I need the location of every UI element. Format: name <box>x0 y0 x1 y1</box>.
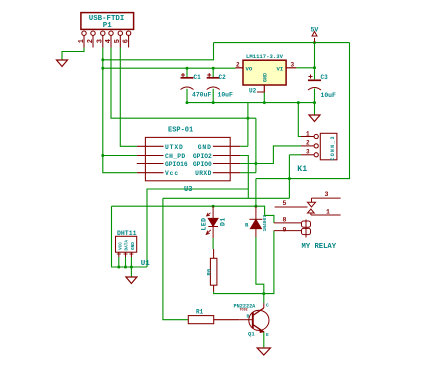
wire <box>125 257 127 267</box>
wire <box>62 48 84 61</box>
diode B1 1N4007 <box>249 206 262 237</box>
junction <box>186 67 189 70</box>
ground <box>57 60 68 67</box>
svg-text:5: 5 <box>283 200 287 207</box>
wire <box>214 231 274 294</box>
svg-text:VO: VO <box>246 66 253 73</box>
svg-text:LM1117-3.3V: LM1117-3.3V <box>246 53 284 60</box>
svg-text:P1: P1 <box>103 22 112 30</box>
wire <box>212 238 214 249</box>
ground <box>126 277 137 284</box>
svg-text:6: 6 <box>122 39 130 43</box>
wire <box>112 206 148 267</box>
wire <box>103 67 236 69</box>
svg-text:GND: GND <box>131 242 136 250</box>
svg-text:9: 9 <box>283 227 287 234</box>
svg-text:3: 3 <box>291 62 295 69</box>
wire <box>186 68 188 77</box>
regulator U2 LM1117-3.3V <box>236 60 297 92</box>
connector P1 USB-FTDI <box>81 13 134 48</box>
wire <box>263 332 265 347</box>
wire <box>212 89 214 103</box>
svg-text:C1: C1 <box>194 74 202 81</box>
svg-text:LED: LED <box>200 217 207 230</box>
junction <box>101 58 104 61</box>
junction <box>313 41 316 44</box>
svg-text:Vcc: Vcc <box>165 170 179 177</box>
svg-text:K1: K1 <box>297 165 307 174</box>
svg-text:1: 1 <box>326 209 330 216</box>
wire <box>103 155 137 157</box>
junction <box>212 101 215 104</box>
svg-text:3: 3 <box>97 39 105 43</box>
wire <box>187 102 315 104</box>
wire <box>118 257 120 267</box>
wire <box>289 154 301 156</box>
resistor R6 <box>210 249 217 292</box>
wire <box>255 179 257 207</box>
wire <box>288 155 290 199</box>
connector K1 <box>301 133 337 160</box>
svg-text:4: 4 <box>105 39 113 43</box>
svg-text:TO92: TO92 <box>240 309 248 313</box>
svg-text:8: 8 <box>283 217 287 224</box>
junction <box>212 67 215 70</box>
svg-text:2: 2 <box>236 62 240 69</box>
svg-text:GPIO16: GPIO16 <box>165 161 188 168</box>
junction <box>263 101 266 104</box>
junction <box>254 162 257 165</box>
junction <box>254 205 257 208</box>
wire <box>296 67 314 69</box>
junction <box>288 177 291 180</box>
junction <box>246 117 249 120</box>
svg-text:5V: 5V <box>311 27 319 34</box>
svg-text:DHT11: DHT11 <box>117 230 137 237</box>
svg-text:10uF: 10uF <box>218 92 234 99</box>
wire <box>212 68 214 77</box>
wire <box>314 89 316 115</box>
svg-text:GPIO2: GPIO2 <box>193 153 212 160</box>
wire <box>214 42 350 44</box>
capacitor C3 <box>308 75 321 91</box>
svg-text:3: 3 <box>306 149 310 156</box>
junction <box>313 66 316 69</box>
wire <box>255 118 257 173</box>
wire <box>163 197 290 199</box>
power flag 5V <box>312 32 317 43</box>
wire <box>240 146 301 164</box>
svg-text:R6: R6 <box>206 268 213 275</box>
svg-text:C2: C2 <box>219 74 227 81</box>
wire <box>103 48 137 173</box>
svg-text:URXD: URXD <box>195 170 212 177</box>
wire <box>130 257 132 277</box>
transistor Q1 PN2222A <box>239 303 269 332</box>
junction <box>101 154 104 157</box>
wire <box>111 48 256 119</box>
LED D1 <box>206 206 218 238</box>
svg-text:C: C <box>266 303 269 309</box>
capacitor C2 <box>207 73 220 90</box>
svg-text:3: 3 <box>325 191 329 198</box>
junction <box>212 205 215 208</box>
wire <box>256 43 350 179</box>
junction <box>130 266 133 269</box>
svg-text:B: B <box>247 314 250 320</box>
svg-text:MY RELAY: MY RELAY <box>302 243 337 251</box>
junction <box>186 101 189 104</box>
svg-text:R1: R1 <box>196 309 204 316</box>
svg-text:C3: C3 <box>321 74 329 81</box>
svg-text:1: 1 <box>78 39 86 43</box>
wire <box>247 103 249 147</box>
svg-text:U1: U1 <box>141 260 151 268</box>
svg-text:GND: GND <box>198 144 212 151</box>
ground <box>309 115 320 122</box>
sensor U1 DHT11 <box>116 236 137 257</box>
svg-text:470uF: 470uF <box>192 92 211 99</box>
ground <box>257 348 270 355</box>
wire <box>120 48 137 147</box>
wire <box>240 145 248 147</box>
svg-text:1N4007: 1N4007 <box>262 215 268 232</box>
junction <box>262 292 265 295</box>
relay K? MYRELAY <box>274 198 341 237</box>
junction <box>124 266 127 269</box>
wire <box>186 89 188 103</box>
wire <box>314 43 316 80</box>
svg-text:Q1: Q1 <box>248 331 255 338</box>
module U3 ESP-01 <box>137 137 240 180</box>
wire <box>240 156 248 199</box>
svg-text:CH_PD: CH_PD <box>165 153 185 160</box>
junction <box>313 101 316 104</box>
capacitor C1 <box>181 73 194 90</box>
wire <box>147 189 248 267</box>
wire <box>263 93 265 103</box>
svg-text:U3: U3 <box>184 186 192 194</box>
svg-text:VCC: VCC <box>118 242 123 250</box>
svg-text:E: E <box>266 332 269 338</box>
wire <box>112 206 274 223</box>
svg-text:DATA: DATA <box>125 240 130 251</box>
junction <box>297 101 300 104</box>
svg-text:CONN_3: CONN_3 <box>330 135 336 160</box>
wire <box>163 198 188 319</box>
svg-text:2: 2 <box>87 39 95 43</box>
svg-text:5: 5 <box>114 39 122 43</box>
svg-text:GPIO0: GPIO0 <box>193 161 212 168</box>
svg-text:2: 2 <box>306 140 310 147</box>
svg-text:10uF: 10uF <box>321 92 337 99</box>
svg-text:UTXD: UTXD <box>165 144 184 151</box>
junction <box>117 266 120 269</box>
junction <box>101 67 104 70</box>
wire <box>256 237 264 303</box>
svg-text:ESP-01: ESP-01 <box>168 127 193 135</box>
resistor R1 <box>188 316 239 324</box>
svg-text:D1: D1 <box>220 217 227 226</box>
wire <box>240 172 256 174</box>
svg-text:VI: VI <box>277 66 284 73</box>
svg-text:GND: GND <box>263 73 269 82</box>
svg-text:1: 1 <box>306 130 310 137</box>
svg-text:U2: U2 <box>249 88 257 95</box>
wire <box>298 103 301 137</box>
wire <box>103 43 214 60</box>
